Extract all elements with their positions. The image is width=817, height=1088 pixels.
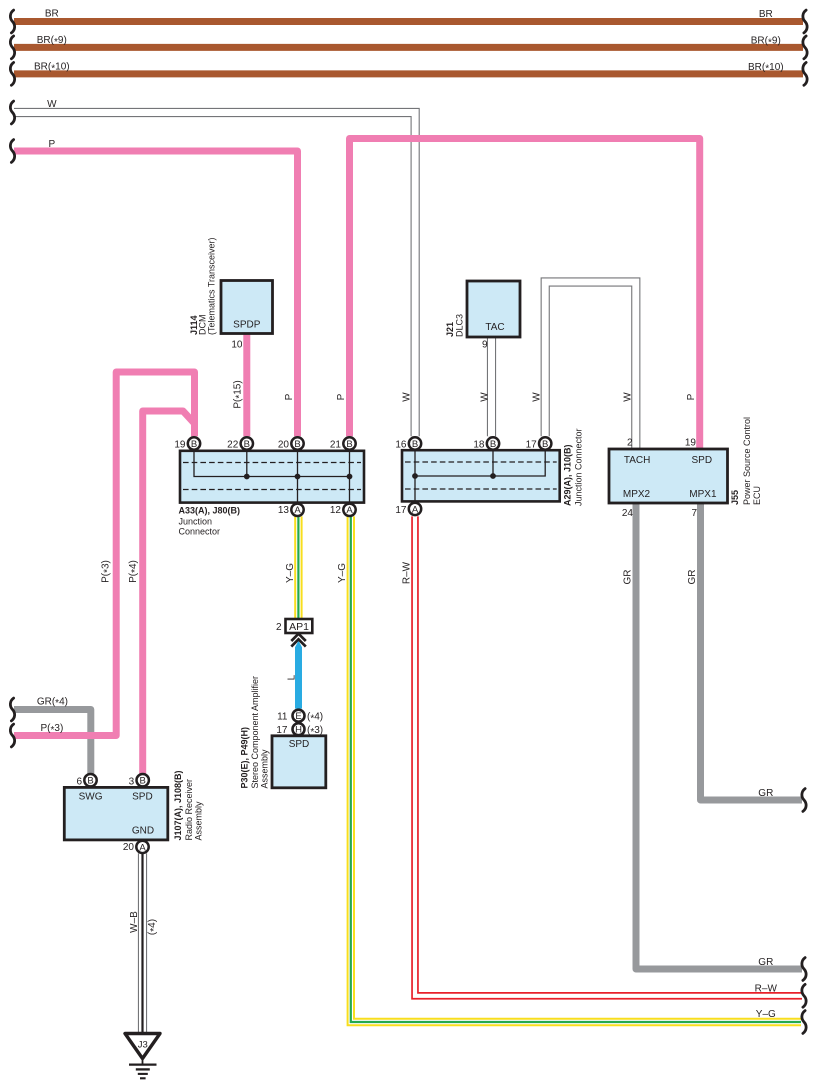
svg-text:TACH: TACH (624, 455, 650, 466)
svg-text:AP1: AP1 (289, 621, 309, 633)
svg-text:Junction: Junction (179, 517, 213, 527)
wire P(*15) DCM pin 10 to junction pin 22 (243, 333, 250, 436)
svg-text:P(*3): P(*3) (40, 723, 63, 736)
svg-text:A: A (412, 504, 419, 515)
svg-text:SPD: SPD (132, 791, 153, 802)
svg-text:B: B (140, 776, 146, 787)
component label A33(A), J80(B) Junction Connector (179, 506, 241, 537)
svg-text:SPD: SPD (692, 455, 713, 466)
svg-text:R–W: R–W (755, 983, 778, 994)
svg-text:W: W (532, 392, 543, 402)
svg-text:J107(A), J108(B): J107(A), J108(B) (173, 770, 183, 840)
svg-text:P(*3): P(*3) (101, 560, 114, 583)
BOXES (64, 281, 727, 1079)
pin 22 B of A33 (241, 437, 253, 450)
wire GR J55 pin 7 to right (701, 503, 807, 811)
svg-text:2: 2 (627, 438, 633, 449)
svg-text:P: P (48, 139, 55, 150)
svg-text:10: 10 (231, 340, 243, 351)
pin 12 A of A33 (343, 504, 355, 517)
connector AP1 box (286, 619, 313, 633)
component label J55 Power Source Control ECU rotated (730, 417, 762, 505)
wire Y-G junction pin 12 to bottom right (351, 516, 806, 1033)
svg-text:11: 11 (277, 712, 288, 723)
svg-text:E: E (295, 711, 301, 722)
svg-text:P(*4): P(*4) (128, 560, 141, 583)
pin 13 A of A33 (291, 504, 303, 517)
svg-text:(Telematics Transceiver): (Telematics Transceiver) (207, 237, 217, 335)
wire W-B radio pin 20 to ground J3 (138, 853, 147, 1033)
svg-text:H: H (295, 724, 302, 735)
svg-text:(*4): (*4) (147, 919, 160, 935)
pin 19 B of A33 (188, 437, 200, 450)
radio receiver J107(A), J108(B) box (64, 787, 168, 840)
svg-text:A33(A), J80(B): A33(A), J80(B) (179, 506, 241, 516)
svg-text:SPD: SPD (289, 739, 310, 750)
svg-text:Power Source Control: Power Source Control (742, 417, 752, 505)
svg-text:21: 21 (330, 439, 342, 450)
DCM J114 box (221, 281, 273, 334)
CIRCLES (84, 437, 551, 853)
svg-text:BR(*9): BR(*9) (751, 36, 781, 49)
svg-text:GND: GND (132, 826, 154, 837)
svg-text:B: B (191, 439, 197, 450)
svg-text:P: P (686, 393, 697, 400)
junction connector A29(A), J10(B) box (402, 450, 560, 501)
svg-text:(*3): (*3) (307, 725, 323, 738)
svg-text:P: P (284, 393, 295, 400)
svg-text:2: 2 (276, 622, 282, 633)
J55 Power Source Control ECU box (609, 449, 728, 503)
svg-text:J3: J3 (138, 1040, 148, 1051)
svg-text:MPX1: MPX1 (689, 489, 717, 500)
svg-text:R–W: R–W (402, 561, 413, 584)
svg-text:GR: GR (758, 957, 773, 968)
component label J114 DCM rotated (189, 237, 217, 335)
wire P(*4) radio pin 3 to junction pin 19 (143, 411, 195, 774)
pin 18 B of A29 (487, 437, 499, 450)
svg-text:P30(E), P49(H): P30(E), P49(H) (240, 727, 250, 789)
DLC3 J21 box (467, 281, 520, 337)
svg-text:GR: GR (623, 570, 634, 585)
wire BR bus 3 (*10) (10, 63, 807, 86)
svg-text:TAC: TAC (485, 322, 504, 333)
junction connector A33(A), J80(B) box (180, 451, 364, 503)
pin 3 B of radio (137, 774, 149, 787)
wire W loop from junction pin 17B to J55 pin 2 (545, 282, 636, 450)
component label J107(A), J108(B) Radio Receiver Assembly rotated (173, 770, 203, 840)
svg-text:GR(*4): GR(*4) (37, 696, 68, 709)
pin 20 A of radio (136, 841, 148, 854)
svg-text:A: A (139, 842, 146, 853)
svg-text:18: 18 (473, 439, 485, 450)
svg-text:Stereo Component Amplifier: Stereo Component Amplifier (250, 676, 260, 789)
svg-text:J55: J55 (730, 490, 740, 505)
svg-text:13: 13 (278, 505, 290, 516)
svg-text:GR: GR (758, 788, 773, 799)
component label A29(A), J10(B) Junction Connector rotated (563, 428, 584, 506)
svg-text:(*4): (*4) (307, 712, 323, 725)
svg-text:P: P (336, 393, 347, 400)
svg-text:A29(A), J10(B): A29(A), J10(B) (563, 444, 573, 506)
svg-text:BR(*10): BR(*10) (748, 62, 784, 75)
ground symbol J3 (125, 1034, 160, 1079)
svg-text:W: W (402, 392, 413, 402)
svg-text:A: A (346, 505, 353, 516)
wire GR J55 pin 24 to bottom right (636, 503, 806, 980)
arrow chevrons below AP1 (291, 634, 306, 647)
svg-text:BR: BR (759, 9, 773, 20)
wire Y-G junction pin 13 to AP1 (294, 516, 302, 619)
svg-text:B: B (412, 439, 418, 450)
svg-text:9: 9 (482, 340, 488, 351)
svg-text:22: 22 (227, 439, 239, 450)
component label J21 DLC3 rotated (445, 314, 465, 337)
wire P junction pin 21 to J55 pin 19 (350, 139, 700, 450)
svg-text:SPDP: SPDP (233, 320, 261, 331)
svg-text:17: 17 (526, 439, 538, 450)
svg-text:6: 6 (76, 777, 82, 788)
svg-text:P(*15): P(*15) (233, 380, 246, 408)
pin 11 E of amplifier (293, 710, 305, 722)
svg-text:SWG: SWG (79, 791, 103, 802)
wire BR bus 2 (*9) (10, 36, 807, 59)
wire W from DLC3 pin 9 to junction pin 18 (487, 333, 496, 436)
svg-text:B: B (542, 439, 548, 450)
svg-text:16: 16 (395, 439, 407, 450)
svg-text:20: 20 (123, 842, 135, 853)
pin 17 B of A29 (539, 437, 551, 450)
svg-text:W: W (622, 392, 633, 402)
component label P30(E), P49(H) Stereo Component Amplifier Assembly rotated (240, 676, 270, 789)
svg-text:W–B: W–B (129, 911, 140, 933)
svg-text:BR(*9): BR(*9) (37, 35, 67, 48)
pin 17 H of amplifier (293, 723, 305, 735)
svg-text:W: W (47, 99, 57, 110)
svg-text:B: B (346, 439, 352, 450)
pin 6 B of radio (84, 774, 96, 787)
svg-text:B: B (87, 776, 93, 787)
svg-text:A: A (294, 505, 301, 516)
svg-text:J21: J21 (445, 322, 455, 337)
svg-text:7: 7 (691, 508, 697, 519)
svg-text:19: 19 (174, 439, 186, 450)
svg-text:W: W (480, 392, 491, 402)
svg-text:17: 17 (395, 505, 407, 516)
svg-text:B: B (490, 439, 496, 450)
pin 20 B of A33 (291, 437, 303, 450)
pin 17 A of A29 (409, 503, 421, 516)
wire P(*3) from left to junction pin 19 (10, 372, 194, 747)
svg-text:19: 19 (685, 438, 697, 449)
svg-text:L: L (287, 674, 298, 680)
wire R-W junction pin 17A to bottom right (415, 516, 806, 1007)
svg-text:BR: BR (45, 9, 59, 20)
pin 16 B of A29 (409, 437, 421, 450)
stereo component amplifier P30(E), P49(H) box (272, 736, 326, 788)
svg-text:17: 17 (276, 725, 288, 736)
svg-text:Connector: Connector (179, 527, 221, 537)
svg-text:3: 3 (129, 777, 135, 788)
svg-text:B: B (244, 439, 250, 450)
svg-text:MPX2: MPX2 (623, 489, 651, 500)
svg-text:24: 24 (622, 508, 634, 519)
svg-text:BR(*10): BR(*10) (34, 62, 70, 75)
svg-text:Y–G: Y–G (337, 563, 348, 583)
wire L amplifier pin E to AP1 arrow (295, 641, 302, 709)
svg-text:Assembly: Assembly (193, 801, 203, 841)
wire BR bus 1 (10, 10, 807, 33)
svg-text:DLC3: DLC3 (455, 314, 465, 337)
svg-text:Assembly: Assembly (260, 749, 270, 789)
svg-text:Junction Connector: Junction Connector (574, 428, 584, 506)
svg-text:Y–G: Y–G (285, 563, 296, 583)
svg-text:ECU: ECU (752, 486, 762, 505)
svg-text:12: 12 (330, 505, 342, 516)
svg-text:Y–G: Y–G (756, 1009, 776, 1020)
wire GR(*4) from left to radio pin 6 (10, 698, 90, 774)
svg-text:20: 20 (278, 439, 290, 450)
pin 21 B of A33 (343, 437, 355, 450)
svg-text:B: B (294, 439, 300, 450)
svg-text:GR: GR (687, 570, 698, 585)
wire W from left to junction pin 16 (10, 101, 415, 436)
wire P from left to junction pin 20 (10, 140, 297, 437)
